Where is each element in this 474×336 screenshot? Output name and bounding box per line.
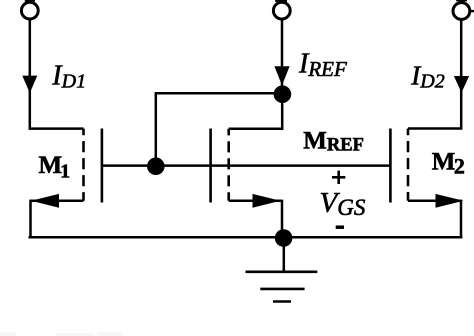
current arrow ID2: [454, 76, 469, 93]
junction dot: IREF node (drain-gate tie of MREF): [274, 85, 292, 103]
terminal T1 (top-left port circle): [21, 2, 38, 19]
current arrow ID1: [22, 76, 37, 94]
M2 gate line: [389, 129, 392, 203]
transistor MREF (NMOS, diode-connected): [211, 129, 281, 208]
svg-text:M1: M1: [39, 152, 71, 183]
M1 source arrow: [31, 194, 59, 208]
cropped wire stub right of T3: [470, 10, 474, 12]
ground symbol: [246, 272, 318, 302]
transistor M1 (NMOS, gate on right): [31, 129, 102, 208]
MREF source arrow: [253, 194, 281, 208]
wire: MREF source down to bottom node: [281, 200, 284, 238]
M1 source lead: [31, 200, 84, 203]
cropped caption remnant (very faint, bottom-left): [0, 332, 123, 336]
M2 source arrow: [436, 194, 464, 208]
svg-text:ID2: ID2: [410, 60, 444, 92]
wire: M1 source down to bottom rail: [29, 200, 32, 238]
wire: bottom node down to ground: [283, 238, 286, 272]
transistor M2 (NMOS, gate on left): [390, 129, 463, 208]
cropped wire stub above T3: [456, 0, 467, 1]
MREF channel (dashed): [227, 129, 230, 201]
svg-text:IREF: IREF: [298, 49, 347, 81]
label: VGS minus sign: [336, 225, 344, 229]
MREF gate line: [209, 129, 212, 203]
junction dot: bottom node: [275, 229, 293, 247]
M2 source lead: [408, 200, 461, 203]
M1 channel (dashed): [82, 129, 85, 201]
M1 gate line: [101, 129, 104, 203]
svg-text:VGS: VGS: [320, 187, 366, 220]
current arrow IREF: [274, 66, 289, 85]
terminal T2 (top-middle port circle): [273, 2, 290, 19]
wire: IREF node down-left to MREF drain: [229, 94, 283, 129]
bottom rail (common source node): [29, 236, 463, 239]
junction dot on gate bus: [147, 158, 165, 176]
svg-text:ID1: ID1: [51, 61, 86, 93]
wire: T2 down to IREF node: [281, 19, 284, 94]
wire: T3 down to M2 drain (right rail): [408, 20, 461, 129]
cropped wire stub above T1: [25, 0, 35, 2]
cropped wire stub above T2: [275, 0, 287, 2]
wire: gate bus up and right to IREF node: [156, 93, 282, 165]
svg-text:M2: M2: [432, 148, 465, 178]
MREF source lead: [229, 200, 281, 203]
svg-text:MREF: MREF: [303, 128, 364, 156]
wire: T1 down to M1 drain (left rail): [30, 19, 84, 128]
wire: M2 source down to bottom rail: [460, 200, 463, 239]
M2 channel (dashed): [407, 129, 410, 201]
gate bus: gates of M1, MREF, M2: [102, 164, 391, 167]
terminal T3 (top-right port circle): [453, 3, 470, 20]
label: VGS plus sign: [332, 171, 345, 184]
